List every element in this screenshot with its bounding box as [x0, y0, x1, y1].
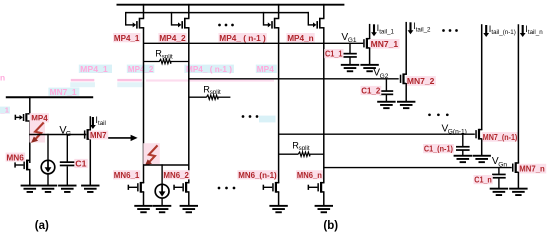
- ghost text MP4_(n-1): [184, 64, 234, 74]
- transistor MN7_1: [363, 38, 370, 49]
- wire current source to ground (a): [47, 174, 49, 186]
- ground under MN7 (a): [81, 185, 99, 193]
- wire MN7 drain stub (a): [89, 116, 91, 130]
- wire gate loop of MP4 #3: [264, 12, 269, 26]
- wire MP4_n source to rail: [323, 4, 325, 18]
- I_tail arrow (part a): [90, 115, 106, 129]
- wire MN7 cell 2 drain column: [405, 22, 407, 75]
- svg-text:MN7_(n-1): MN7_(n-1): [483, 132, 518, 142]
- label MN6: [6, 152, 26, 162]
- transistor MP4_2: [178, 18, 190, 29]
- label V_Gn: [492, 156, 507, 168]
- capacitor C1_n: [492, 174, 506, 179]
- svg-text:C1_2: C1_2: [361, 86, 380, 96]
- label Rsplit 3: [292, 140, 310, 152]
- wire MP4 drain column from rail: [29, 96, 31, 113]
- svg-text:n: n: [0, 73, 5, 83]
- svg-text:MN7_n: MN7_n: [519, 164, 545, 174]
- ground under MN6_n: [315, 205, 333, 213]
- wire current source to ground (b): [161, 198, 163, 206]
- transistor MN6 (part a): [14, 160, 30, 171]
- ghost pink smear 1: [71, 79, 142, 81]
- node V_G(n-1) wire: [279, 133, 475, 135]
- label MP4: [30, 113, 50, 123]
- wire C1 branch (a): [66, 134, 68, 162]
- label MP4_2: [158, 33, 186, 43]
- svg-text:MP4_ ( n-1 ): MP4_ ( n-1 ): [219, 33, 266, 43]
- ghost text 1_1: [0, 105, 10, 114]
- wire MN6_(n-1) source to ground: [278, 192, 280, 206]
- svg-text:MP4_2: MP4_2: [159, 33, 186, 43]
- transistor MN7_2: [400, 73, 407, 84]
- svg-text:tail_(n-1): tail_(n-1): [491, 29, 515, 36]
- svg-text:MN6_n: MN6_n: [297, 170, 322, 180]
- wire C1 cell 4 branch: [498, 167, 500, 174]
- label MP4_(n-1): [219, 33, 267, 43]
- label MN6_n: [296, 170, 323, 180]
- part (a) VDD rail: [6, 96, 93, 98]
- ground under MN7 cell 1: [360, 64, 378, 72]
- ghost pink smear 2: [146, 79, 274, 81]
- resistor Rsplit 3 wire: [279, 152, 324, 156]
- caption (a): [35, 220, 49, 232]
- svg-text:C1_1: C1_1: [325, 49, 343, 59]
- dots middle left of MP4_(n-1): [242, 115, 259, 118]
- dots between MP4_2 and MP4_(n-1): [218, 24, 234, 27]
- ground under MN6 (a): [21, 185, 39, 193]
- label MN7_n: [518, 164, 546, 174]
- svg-text:MN7_1: MN7_1: [371, 39, 399, 49]
- svg-text:G(n-1): G(n-1): [448, 129, 467, 136]
- svg-text:MN7: MN7: [90, 130, 107, 140]
- wire gate loop of MP4 #4: [308, 12, 313, 26]
- label Rsplit 1: [155, 49, 173, 61]
- part (b) VDD rail: [117, 4, 345, 6]
- wire current-source branch (a): [47, 134, 49, 161]
- ground under MN7 cell 4: [509, 188, 527, 196]
- ghost text n: [0, 73, 5, 83]
- svg-text:MN7_1: MN7_1: [50, 87, 77, 97]
- output arrow to part b: [90, 135, 137, 141]
- wire C1 cell 3 to ground: [462, 151, 464, 156]
- wire MN7 cell 4 source to ground: [517, 172, 519, 189]
- svg-text:split: split: [299, 145, 310, 152]
- wire MN6_n source to ground: [323, 192, 325, 206]
- svg-text:C1_n: C1_n: [474, 175, 492, 185]
- label C1_1: [324, 49, 343, 59]
- I_tail arrow cell 1: [371, 23, 394, 36]
- wire MN7 cell 3 drain column: [481, 24, 483, 130]
- wire MN7 source to ground (a): [89, 139, 91, 185]
- stress lightning (part b): [143, 143, 160, 166]
- svg-text:G: G: [66, 131, 71, 138]
- label C1_2: [361, 86, 382, 96]
- label V_G1: [341, 32, 356, 44]
- svg-text:MP4_n: MP4_n: [287, 33, 314, 43]
- svg-text:tail_n: tail_n: [528, 29, 543, 36]
- svg-text:_1: _1: [0, 105, 10, 114]
- svg-text:(a): (a): [35, 220, 49, 232]
- svg-text:tail_2: tail_2: [416, 26, 431, 33]
- svg-text:MN7_2: MN7_2: [407, 76, 435, 86]
- wire C1 cell 1 branch: [349, 43, 351, 54]
- svg-text:split: split: [162, 53, 173, 60]
- wire MN7 cell 1 source to ground: [369, 48, 371, 65]
- label MP4_1: [113, 33, 140, 43]
- ground under C1_1: [341, 64, 359, 72]
- label V_G2: [373, 68, 388, 80]
- label MN7_1: [370, 39, 400, 49]
- svg-text:C1_(n-1): C1_(n-1): [424, 144, 453, 154]
- ground under MN7 cell 2: [397, 101, 415, 109]
- node V_G2 wire: [189, 78, 399, 80]
- transistor MN7_n: [512, 162, 519, 173]
- wire C1 cell 4 to ground: [498, 178, 500, 188]
- transistor MN6_n: [308, 182, 325, 193]
- wire column n-1 (MP4_(n-1) to MN6_(n-1)): [278, 28, 280, 184]
- wire C1 cell 1 to ground: [349, 57, 351, 64]
- svg-text:G2: G2: [380, 73, 389, 80]
- wire MN7 cell 4 drain column: [517, 24, 519, 163]
- svg-text:C1: C1: [75, 159, 86, 169]
- svg-text:(b): (b): [323, 220, 338, 232]
- node V_Gn wire: [324, 167, 512, 169]
- dots right middle: [428, 113, 449, 116]
- label MP4_n: [286, 33, 314, 43]
- I_tail arrow cell 2: [408, 21, 431, 34]
- transistor MN7_(n-1): [475, 129, 482, 140]
- stress lightning (part a): [30, 120, 46, 143]
- svg-text:tail: tail: [98, 120, 106, 127]
- I_tail arrow cell 3: [483, 24, 516, 37]
- ground under MN7 cell 3: [473, 155, 491, 163]
- wire MP4_2 source to rail: [188, 4, 190, 18]
- I_tail arrow cell 4: [520, 24, 543, 37]
- ghost text MP4_n: [256, 64, 277, 74]
- ground under C1_n: [490, 188, 508, 196]
- dots top right: [442, 29, 458, 32]
- transistor MN6_(n-1): [263, 182, 280, 193]
- capacitor C1_(n-1): [456, 146, 470, 151]
- wire gate loop of MP4 #2: [172, 12, 179, 26]
- svg-text:tail_1: tail_1: [379, 28, 394, 35]
- svg-text:MN6_(n-1): MN6_(n-1): [238, 170, 277, 180]
- wire C1 to ground (a): [66, 166, 68, 185]
- wire column n (MP4_n to MN6_n): [323, 28, 325, 184]
- wire C1 cell 3 branch: [462, 134, 464, 147]
- ground under MN6_2: [180, 205, 198, 213]
- current source (part b): [155, 184, 169, 198]
- wire column 2 (MP4_2 to MN6_2): [188, 28, 190, 184]
- label C1_n: [474, 175, 493, 185]
- label C1_(n-1): [423, 144, 454, 154]
- ghost text MP4_1: [79, 64, 112, 74]
- transistor MN6_2: [173, 182, 189, 193]
- ground under MN6_1: [134, 205, 152, 213]
- svg-text:MN6: MN6: [6, 152, 24, 162]
- svg-text:MP4_ ( n-1 ): MP4_ ( n-1 ): [186, 64, 232, 74]
- wire MN7 cell 1 drain column: [369, 24, 371, 39]
- ground under MN6_(n-1): [269, 205, 287, 213]
- current source I (part a): [41, 160, 55, 174]
- dots right of MN6_2: [218, 187, 236, 190]
- label MN6_(n-1): [237, 170, 277, 180]
- wire MN6 source to ground (a): [29, 170, 31, 186]
- wire C1 cell 2 branch: [385, 78, 387, 90]
- wire MP4_(n-1) source to rail: [278, 4, 280, 18]
- label V_G: [59, 125, 71, 138]
- wire MP4 drain to V_G node: [29, 121, 31, 163]
- transistor MP4_(n-1): [268, 18, 280, 29]
- wire MN6_2 source to ground: [188, 192, 190, 206]
- ghost text MN7_1: [48, 87, 79, 97]
- label MN7_2: [406, 76, 436, 86]
- transistor MP4_n: [313, 18, 325, 29]
- node V_G1 wire: [144, 42, 364, 44]
- ghost text MP4_2: [127, 64, 155, 74]
- ghost blue box near dots: [259, 116, 276, 123]
- capacitor C1_1: [343, 53, 357, 58]
- svg-text:MP4_1: MP4_1: [80, 64, 108, 74]
- transistor MP4 (part a): [15, 113, 31, 122]
- wire column 1 (MP4_1 to MN6_1): [143, 28, 145, 184]
- ground under C1_2: [377, 101, 395, 109]
- ground under current source (b): [153, 205, 171, 213]
- svg-text:G1: G1: [348, 37, 357, 44]
- wire MN7 cell 2 source to ground: [405, 83, 407, 102]
- transistor MN7 (part a): [84, 129, 91, 140]
- svg-text:MP4_2: MP4_2: [128, 64, 154, 74]
- ground under C1 (a): [58, 185, 76, 193]
- wire tail node between MN6_1 and MN6_2: [144, 164, 189, 166]
- wire C1 cell 2 to ground: [385, 95, 387, 102]
- svg-text:split: split: [210, 89, 221, 96]
- wire MN6_1 source to ground: [143, 192, 145, 206]
- label MN7: [89, 130, 108, 140]
- transistor MN6_1: [128, 182, 145, 193]
- svg-text:MP4: MP4: [257, 64, 274, 74]
- wire tail current source branch: [161, 164, 163, 185]
- label C1: [74, 159, 88, 169]
- resistor Rsplit 1 wire: [144, 59, 189, 63]
- wire MP4_1 source to rail: [143, 4, 145, 18]
- wire gate loop of MP4 #1: [126, 12, 133, 26]
- svg-text:MN6_1: MN6_1: [114, 170, 140, 180]
- label V_G(n-1): [442, 123, 467, 135]
- part (b) PMOS gate bus: [126, 12, 309, 14]
- ground under C1_(n-1): [454, 155, 472, 163]
- label Rsplit 2: [203, 84, 221, 96]
- svg-text:MP4_1: MP4_1: [114, 33, 140, 43]
- node V_G wire: [29, 134, 86, 136]
- capacitor C1 (part a): [60, 161, 75, 166]
- caption (b): [323, 220, 338, 232]
- transistor MP4_1: [133, 18, 145, 29]
- label MN6_2: [163, 170, 190, 180]
- ghost blue smear 1: [70, 82, 142, 87]
- wire MN7 cell 3 source to ground: [481, 138, 483, 155]
- label MN6_1: [113, 170, 140, 180]
- ground under current source (a): [39, 185, 57, 193]
- capacitor C1_2: [380, 90, 394, 95]
- svg-text:MN6_2: MN6_2: [163, 170, 189, 180]
- label MN7_(n-1): [482, 132, 519, 142]
- resistor Rsplit 2 wire: [189, 95, 231, 99]
